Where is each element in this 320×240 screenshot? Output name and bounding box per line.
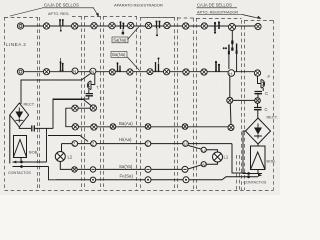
svg-text:W: W (202, 162, 206, 167)
terminal W (201, 162, 206, 167)
dashed box LINEA 2 left (5, 17, 38, 190)
wire drop from A10 (231, 31, 233, 41)
svg-text:RECT.: RECT. (24, 102, 35, 107)
wire cap down-left (53, 96, 89, 129)
dashed box 3 (85, 16, 101, 190)
capacitor c left (86, 94, 94, 96)
svg-text:Ba(Aa): Ba(Aa) (119, 121, 133, 126)
relay Hi(Aa) (91, 141, 97, 147)
wire contact2 to row B (49, 167, 57, 180)
dashed pair bottom right (237, 155, 240, 190)
diag row4 to U (188, 146, 201, 150)
contact K2 (121, 23, 124, 29)
wire rowB right (189, 177, 246, 180)
lamp L2 wires (60, 144, 72, 170)
jack contact B8 (201, 69, 207, 75)
wire diamond bottom to cap (19, 127, 31, 128)
wires cluster to row2 (229, 54, 237, 72)
wire cap2 to diamond (257, 110, 259, 118)
bobbin left (14, 136, 27, 158)
contact K5 (61, 63, 63, 71)
jack contact B6 (163, 69, 169, 75)
dashed box 2 (40, 16, 82, 190)
jack contact B1 (17, 69, 23, 75)
wire B9 down to receiver (258, 76, 262, 83)
svg-text:C: C (265, 91, 268, 96)
terminal row3 right (182, 124, 188, 130)
svg-text:N: N (91, 69, 94, 74)
contacts left (13, 162, 49, 167)
wire rowB (56, 179, 183, 181)
svg-text:BOB.: BOB. (267, 159, 276, 164)
jack contact A1 (17, 23, 23, 29)
terminal minus 1 (90, 167, 95, 172)
dashed box right (245, 20, 274, 190)
svg-text:APTO. REGISTRADOR: APTO. REGISTRADOR (197, 10, 238, 15)
row4 right bend down (232, 144, 246, 173)
svg-text:Sa(Na): Sa(Na) (113, 38, 127, 43)
dashed box 4 (104, 16, 137, 190)
terminal circle C2 (90, 105, 96, 111)
wire N2 down to receiver (92, 74, 95, 85)
wire diamond bottom to bob (257, 144, 259, 146)
bobbin right (251, 146, 266, 170)
jack contact A5 (109, 23, 115, 29)
svg-text:CONTACTOS: CONTACTOS (8, 171, 31, 175)
contact K4 heavy (215, 24, 219, 32)
svg-text:T.: T. (96, 85, 99, 90)
jack contact A10 (229, 24, 236, 31)
svg-text:Z: Z (146, 142, 149, 147)
contact K3 (157, 22, 160, 28)
wire receiver to cap (262, 88, 264, 91)
svg-text:CAJA DE SELLOS: CAJA DE SELLOS (197, 3, 232, 8)
row3 wire (78, 126, 228, 128)
diode inside right (254, 128, 262, 135)
receiver T right (261, 80, 265, 89)
svg-text:Hi(Aa): Hi(Aa) (119, 137, 132, 142)
svg-text:L2: L2 (68, 155, 73, 160)
terminal dot 3 (183, 177, 189, 183)
jack contact B7 (183, 69, 189, 75)
jack contact B9 (254, 70, 260, 76)
dashed top middle (72, 17, 242, 19)
contact K8 heavy (216, 63, 219, 72)
row3 right end circle (228, 125, 234, 131)
wire contact1 up (46, 129, 48, 163)
jack contact A11 (255, 23, 261, 29)
svg-text:H: H (229, 71, 233, 77)
wire bob to contacts (20, 158, 22, 163)
contact cluster below A10 (231, 41, 233, 45)
dashed box 7 (197, 18, 242, 190)
terminal dot 1 (90, 177, 95, 182)
terminal minus 2 (145, 166, 151, 172)
svg-text:APTO. REG.: APTO. REG. (48, 12, 70, 16)
diode inside (15, 112, 23, 119)
terminal circle C3 (72, 124, 78, 130)
svg-text:LINEA 2: LINEA 2 (6, 42, 26, 47)
wire R1 down to cap2 (257, 103, 259, 107)
terminal circle R1 (255, 98, 261, 104)
capacitor left bottom (32, 125, 35, 131)
jack contact A9 (183, 23, 189, 29)
relay coil N2 (90, 68, 96, 74)
relay row4 (145, 141, 151, 147)
relay coil N1 (72, 68, 78, 74)
terminal A ⊗ (72, 167, 77, 172)
wire row2 (24, 71, 255, 73)
jack contact A2 (43, 23, 49, 29)
contact K7 (156, 62, 159, 72)
wire row4 (62, 143, 233, 145)
wire rowA (77, 168, 182, 170)
wire bob bottom (257, 170, 259, 174)
wire C1 left down (66, 108, 73, 127)
svg-text:c: c (100, 96, 102, 101)
wire diamond left to col (243, 131, 246, 174)
label Sa(Na) with leader (128, 26, 140, 40)
capacitor C r2 (254, 108, 262, 110)
rectifier diamond left (10, 103, 29, 127)
svg-text:Fe(Sa): Fe(Sa) (120, 174, 134, 179)
svg-text:U: U (184, 142, 187, 147)
svg-text:L1: L1 (224, 155, 229, 160)
wire R0 vertical (230, 77, 231, 125)
capacitor C r1 (255, 92, 263, 94)
dashed bottoms (5, 190, 274, 192)
svg-text:U: U (202, 148, 205, 153)
svg-text:CONTACTOS: CONTACTOS (244, 181, 267, 185)
contact K6 (118, 64, 121, 72)
paper background (0, 0, 280, 195)
switch diagonal (84, 100, 92, 106)
svg-text:Z: Z (92, 142, 95, 147)
wire C1-C2 (78, 107, 91, 109)
dashed box 5 (141, 17, 175, 190)
wire diamond left side down (9, 115, 11, 164)
svg-text:N: N (73, 69, 76, 74)
diag rowA right to W (188, 165, 202, 169)
jack contact A8 (164, 22, 170, 28)
terminal dot 2 (145, 177, 151, 183)
relay Ba(Aa) (110, 124, 116, 130)
jack contact A3 (72, 23, 78, 29)
jack contact A4 (91, 23, 97, 29)
lamp L2 (55, 152, 65, 162)
terminal U (201, 147, 206, 152)
wire receiver to cap (88, 90, 90, 94)
svg-text:APARATO REGISTRADOR: APARATO REGISTRADOR (114, 3, 163, 8)
svg-text:CAJA DE SELLOS: CAJA DE SELLOS (44, 3, 79, 8)
svg-text:Ba(Na): Ba(Na) (112, 52, 126, 57)
relay row4 r2 (183, 141, 189, 147)
terminal circle C4 (91, 124, 97, 130)
wire row1 (24, 25, 256, 27)
svg-text:Z: Z (73, 142, 76, 147)
receiver T left (87, 81, 91, 90)
svg-text:C: C (265, 107, 268, 112)
terminal row3 (145, 124, 151, 130)
terminal circle C1 (72, 105, 78, 111)
switch diag row4 (48, 136, 88, 142)
terminal minus 3 (182, 166, 188, 172)
svg-text:Sa(Ya): Sa(Ya) (119, 164, 133, 169)
relay Z1 (72, 141, 78, 147)
svg-text:P: P (268, 74, 271, 79)
jack contact A6 (128, 22, 134, 28)
wire diag from N2 to bus (21, 74, 90, 104)
svg-text:RECT.: RECT. (267, 115, 278, 120)
jack contact A7 (145, 22, 151, 28)
label Ba(Na) with leader (111, 52, 127, 58)
wire cap to lamp circle (257, 94, 259, 98)
lamp L1 wires (206, 150, 217, 164)
dashed box 6 (178, 17, 194, 190)
lamp L1 (213, 152, 223, 162)
jack contact B2 (43, 69, 49, 75)
terminal circle R0 (227, 97, 233, 103)
relay coil H (228, 70, 235, 77)
contact K1 (60, 21, 63, 27)
rectifier diamond right (246, 118, 271, 144)
jack contact A9b (201, 23, 207, 29)
jack contact B3 (109, 69, 115, 75)
wire r1 left (233, 99, 255, 101)
jack contact B4 (127, 69, 133, 75)
svg-text:BOB.: BOB. (29, 150, 38, 155)
contacts right (246, 174, 262, 177)
jack contact B5 (147, 69, 153, 75)
